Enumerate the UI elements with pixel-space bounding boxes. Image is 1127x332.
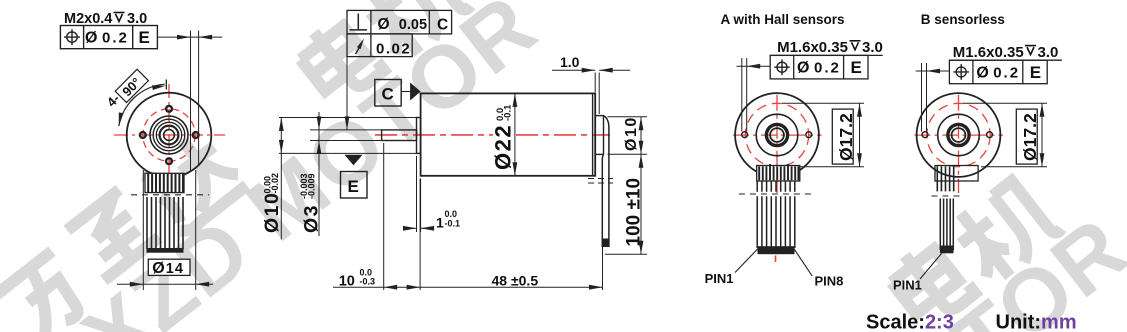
svg-text:0.02: 0.02: [376, 41, 411, 58]
svg-text:3.0: 3.0: [127, 11, 147, 27]
svg-text:48 ±0.5: 48 ±0.5: [492, 272, 539, 288]
svg-text:90°: 90°: [119, 75, 144, 100]
svg-text:4-: 4-: [104, 91, 123, 110]
svg-text:0.2: 0.2: [102, 30, 129, 47]
svg-text:1.0: 1.0: [560, 54, 580, 70]
svg-text:14: 14: [166, 261, 184, 277]
svg-text:-0.1: -0.1: [445, 219, 461, 229]
svg-text:Ø10: Ø10: [623, 116, 640, 151]
svg-text:1: 1: [436, 215, 444, 231]
svg-text:-0.009: -0.009: [306, 173, 316, 199]
svg-text:10: 10: [339, 273, 355, 289]
svg-text:0.05: 0.05: [399, 17, 427, 33]
svg-text:0.2: 0.2: [993, 64, 1020, 81]
svg-text:Ø: Ø: [797, 60, 809, 77]
svg-text:PIN1: PIN1: [705, 271, 734, 286]
svg-text:100 ±10: 100 ±10: [624, 178, 645, 247]
svg-text:C: C: [437, 16, 448, 33]
svg-text:0.2: 0.2: [814, 60, 841, 77]
svg-text:-0.1: -0.1: [503, 104, 514, 121]
svg-text:Ø: Ø: [378, 16, 390, 33]
svg-text:-0.3: -0.3: [360, 277, 376, 287]
svg-text:PIN8: PIN8: [815, 273, 844, 288]
svg-text:Ø10: Ø10: [261, 192, 283, 233]
svg-text:E: E: [139, 28, 150, 47]
svg-text:Ø: Ø: [976, 64, 988, 81]
svg-text:E: E: [1030, 63, 1041, 82]
svg-text:C: C: [382, 85, 394, 104]
svg-text:E: E: [348, 177, 359, 196]
svg-text:PIN1: PIN1: [893, 277, 922, 292]
svg-text:B sensorless: B sensorless: [921, 12, 1005, 27]
svg-text:M2x0.4: M2x0.4: [64, 11, 112, 27]
svg-text:M1.6x0.35: M1.6x0.35: [777, 39, 848, 56]
svg-text:M1.6x0.35: M1.6x0.35: [953, 44, 1024, 61]
svg-text:Ø: Ø: [152, 260, 164, 277]
svg-text:Scale:2:3: Scale:2:3: [866, 312, 954, 332]
svg-text:A with Hall sensors: A with Hall sensors: [721, 12, 845, 27]
svg-text:3.0: 3.0: [1038, 44, 1059, 61]
svg-text:0.0: 0.0: [445, 209, 458, 219]
svg-text:E: E: [851, 58, 862, 77]
svg-text:Ø22: Ø22: [491, 124, 516, 170]
svg-text:Ø17.2: Ø17.2: [1020, 113, 1040, 161]
svg-text:Ø17.2: Ø17.2: [836, 113, 856, 161]
svg-text:-0.02: -0.02: [270, 173, 280, 194]
svg-text:Unit:mm: Unit:mm: [996, 312, 1077, 332]
svg-text:Ø: Ø: [85, 30, 97, 47]
svg-text:Ø3: Ø3: [301, 204, 323, 233]
svg-text:3.0: 3.0: [862, 39, 883, 56]
